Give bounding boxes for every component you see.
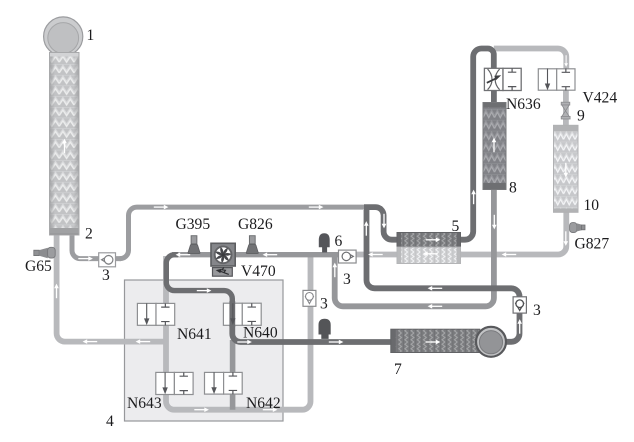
svg-text:N643: N643	[127, 395, 162, 412]
svg-text:G827: G827	[575, 236, 610, 253]
svg-text:3: 3	[343, 271, 351, 288]
svg-text:N642: N642	[246, 395, 281, 412]
svg-text:N636: N636	[506, 96, 541, 113]
svg-text:2: 2	[85, 226, 93, 243]
svg-text:V470: V470	[241, 263, 276, 280]
svg-text:5: 5	[452, 218, 460, 235]
svg-text:8: 8	[509, 180, 517, 197]
svg-text:V424: V424	[583, 90, 618, 107]
svg-text:7: 7	[394, 361, 402, 378]
svg-text:3: 3	[533, 302, 541, 319]
svg-text:6: 6	[335, 233, 343, 250]
svg-text:G395: G395	[176, 216, 211, 233]
svg-text:3: 3	[102, 267, 110, 284]
svg-text:G65: G65	[25, 258, 52, 275]
svg-text:1: 1	[87, 27, 95, 44]
svg-text:3: 3	[320, 296, 328, 313]
svg-text:N640: N640	[243, 325, 278, 342]
svg-text:N641: N641	[177, 326, 212, 343]
svg-text:G826: G826	[238, 216, 273, 233]
svg-text:9: 9	[577, 108, 585, 125]
svg-text:10: 10	[584, 197, 600, 214]
svg-text:4: 4	[106, 413, 114, 430]
